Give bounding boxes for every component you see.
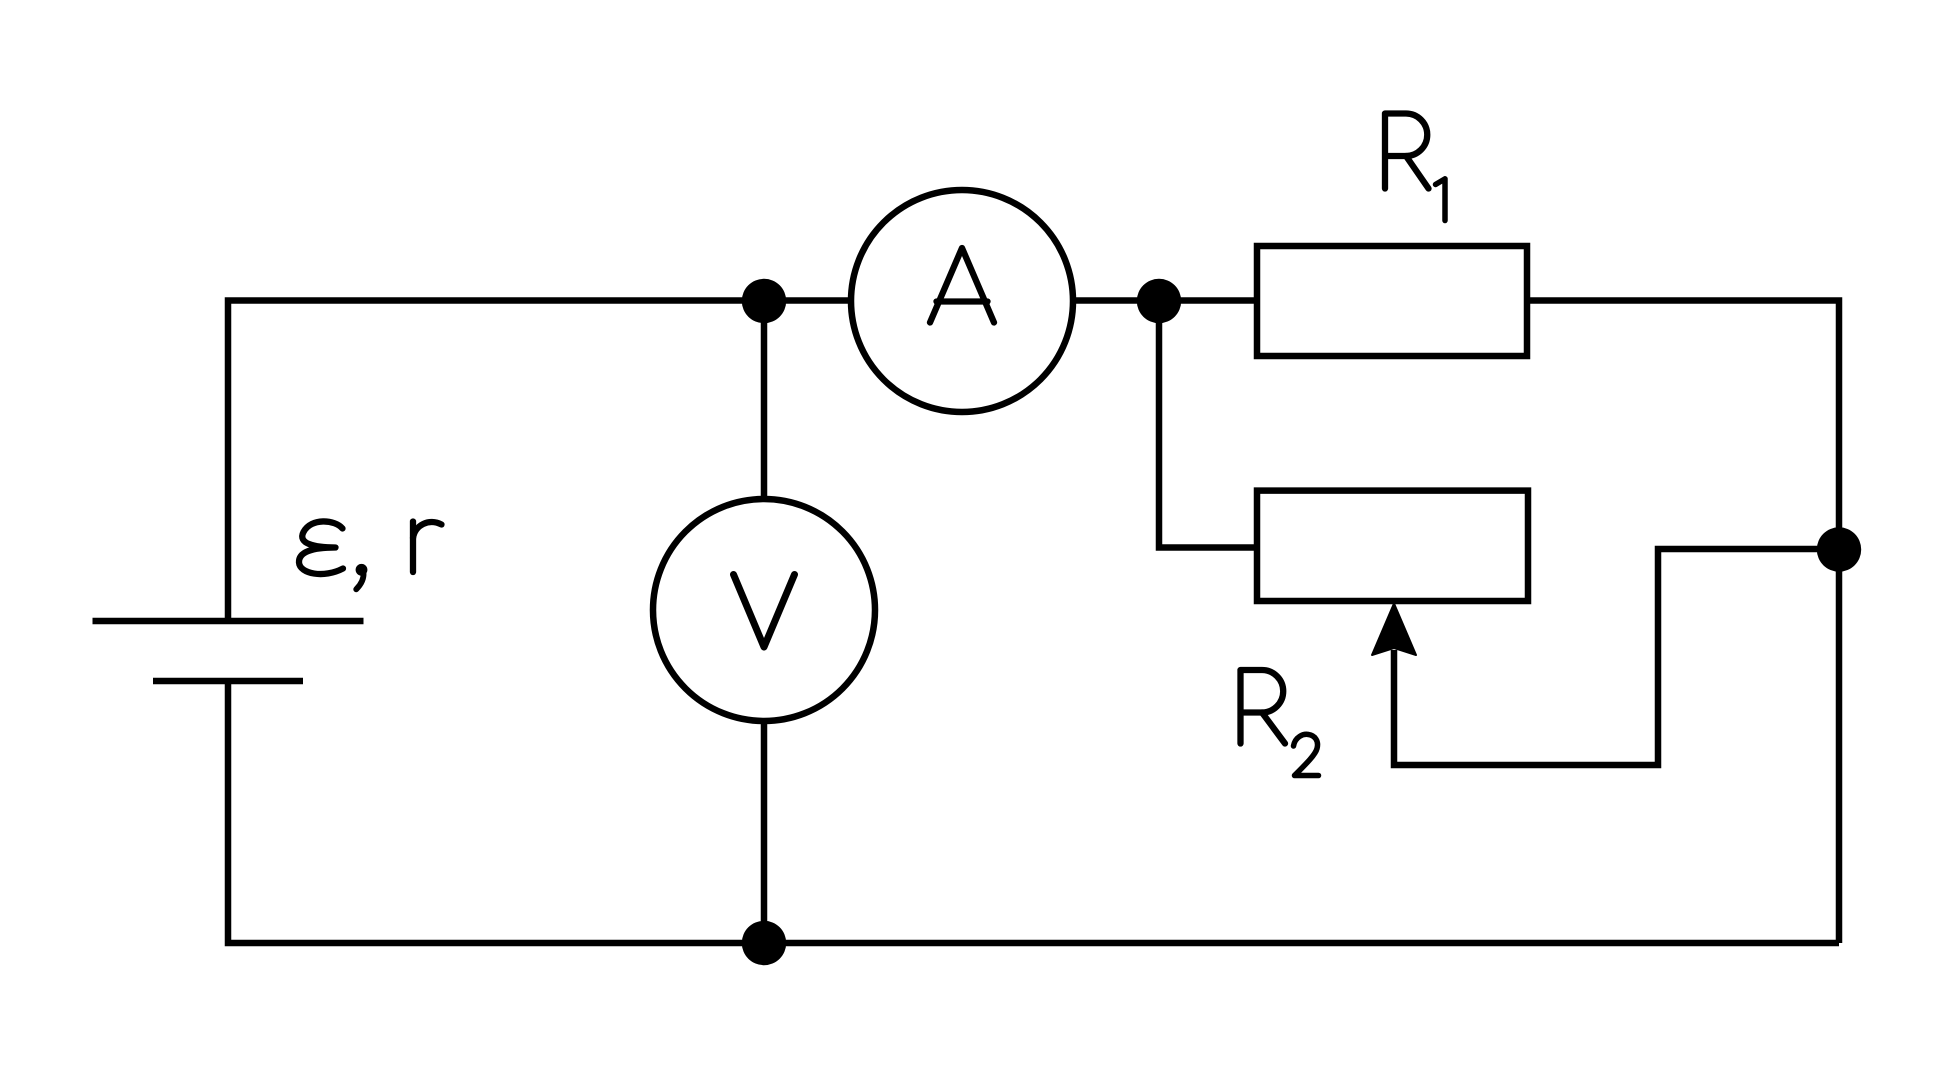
wire voltmeter branch	[761, 301, 768, 944]
battery plate long (positive)	[93, 618, 364, 625]
wire top (battery + to ammeter branch)	[228, 301, 1257, 625]
label R2	[1241, 670, 1319, 776]
node junction bottom	[742, 921, 786, 965]
wire right rail lower	[1836, 549, 1843, 943]
resistor R2 body (rheostat)	[1257, 491, 1528, 601]
wire bottom rail	[228, 678, 1839, 943]
wire R2 wiper return	[1394, 549, 1839, 765]
wire node to R2	[1159, 301, 1257, 548]
resistor R1 body	[1257, 246, 1527, 356]
node junction right rail	[1817, 527, 1861, 571]
ammeter U-A circle	[851, 190, 1073, 412]
label A (ammeter letter)	[930, 248, 994, 323]
comma of battery label	[356, 564, 368, 589]
wire top right (R1 to right rail)	[1527, 301, 1839, 550]
label V (voltmeter letter)	[734, 575, 795, 648]
rheostat wiper arrowhead	[1372, 604, 1416, 656]
battery plate short (negative)	[153, 678, 303, 685]
label R1	[1385, 114, 1445, 221]
label epsilon, r (battery EMF)	[299, 521, 442, 574]
node junction left (top)	[742, 279, 786, 323]
node junction right of ammeter	[1137, 279, 1181, 323]
voltmeter U-V circle	[653, 499, 875, 721]
